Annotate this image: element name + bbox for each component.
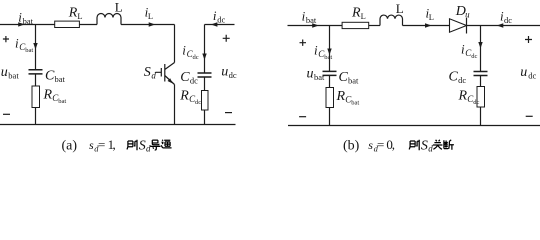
svg-text:L: L: [361, 11, 366, 21]
label i_L (a): [145, 5, 154, 22]
wire: between R_L and L (a): [79, 24, 97, 26]
label R_L (a): [68, 6, 83, 21]
caption (a) hanzi 导: [150, 140, 160, 150]
svg-text:d: d: [428, 144, 433, 154]
svg-text:dc: dc: [195, 99, 201, 106]
label L (b): [396, 1, 404, 16]
wire: circuit (a) top right dc segment: [205, 24, 235, 26]
plus terminal right (b): [525, 36, 532, 43]
svg-text:R: R: [43, 87, 53, 102]
wire: R_C_bat to bottom rail (b): [329, 108, 331, 126]
svg-text:S: S: [421, 139, 428, 154]
plus terminal left (b): [300, 40, 307, 46]
svg-text:L: L: [77, 11, 82, 21]
wire: switch emitter to bottom rail (a): [174, 85, 176, 125]
wire: circuit (b) bottom rail: [288, 125, 540, 127]
minus terminal right (a): [225, 112, 232, 114]
label R_L (b): [351, 5, 366, 20]
caption (b) hanzi 即: [409, 140, 419, 151]
svg-text:L: L: [148, 11, 153, 21]
label i_dc (b): [500, 9, 512, 26]
label u_bat (b): [307, 67, 326, 83]
svg-text:dc: dc: [504, 15, 512, 25]
svg-text:=: =: [98, 137, 105, 152]
current arrow i_bat (b): [312, 23, 319, 27]
label i_bat (a): [18, 9, 33, 26]
wire: R_C_dc to bottom rail (a): [204, 110, 206, 125]
label C_dc (b): [449, 70, 467, 86]
label i_L (b): [426, 6, 434, 23]
resistor R_L (a): [55, 21, 80, 27]
caption (b) hanzi 关: [433, 140, 443, 150]
capacitor C_dc (b): [474, 72, 488, 76]
svg-text:s: s: [368, 138, 373, 152]
resistor R_C_bat (b): [326, 88, 334, 108]
current arrow i_C_dc (b): [478, 42, 482, 49]
svg-text:bat: bat: [55, 74, 66, 84]
label C_dc (a): [180, 70, 198, 86]
transistor S_d (IGBT): [156, 63, 175, 85]
caption (a) hanzi 即: [127, 140, 137, 151]
label R_C_dc (b): [458, 89, 480, 107]
svg-text:S: S: [139, 139, 146, 154]
caption (a) text: [62, 137, 152, 153]
svg-text:S: S: [144, 65, 151, 80]
resistor R_C_dc (a): [202, 91, 209, 111]
svg-text:d: d: [146, 144, 151, 154]
capacitor C_bat (a): [29, 70, 43, 74]
wire: circuit (b) top rail left segment: [288, 25, 343, 27]
current arrow i_dc (b): [497, 23, 504, 27]
label C_bat (a): [45, 69, 66, 85]
label i_C_bat (a): [15, 35, 33, 54]
inductor L (a): [97, 14, 121, 25]
node: C_dc branch drop (b): [480, 26, 482, 72]
svg-text:dc: dc: [193, 54, 199, 61]
minus terminal left (b): [299, 116, 306, 118]
wire: C_dc to R_C_dc (a): [204, 77, 206, 90]
wire: between R_L and L (b): [369, 25, 380, 27]
wire: switch collector drop (a): [174, 25, 176, 63]
svg-text:C: C: [45, 69, 55, 84]
svg-text:u: u: [1, 65, 8, 80]
svg-text:bat: bat: [23, 16, 34, 26]
svg-text:dc: dc: [190, 75, 198, 85]
label R_C_bat (b): [336, 89, 360, 107]
svg-text:bat: bat: [348, 76, 359, 86]
resistor R_L (b): [342, 22, 369, 28]
caption (b) hanzi 断: [444, 140, 454, 150]
svg-text:,: ,: [392, 137, 395, 152]
svg-text:,: ,: [113, 137, 116, 152]
svg-text:d: d: [151, 71, 156, 81]
minus terminal right (b): [526, 115, 533, 117]
label u_dc (b): [520, 65, 536, 81]
node: C_dc branch drop (a): [204, 25, 206, 73]
wire: L to diode (b): [403, 25, 450, 27]
wire: L to switch corner (a): [121, 24, 175, 26]
current arrow i_L (a): [149, 22, 156, 26]
svg-text:bat: bat: [25, 47, 33, 54]
svg-text:bat: bat: [351, 100, 359, 107]
svg-text:L: L: [429, 12, 434, 22]
svg-text:dc: dc: [528, 70, 536, 80]
inductor L (b): [380, 15, 403, 25]
wire: C_dc to R_C_dc (b): [480, 76, 482, 87]
minus terminal left (a): [3, 113, 10, 115]
label L (a): [115, 0, 123, 15]
capacitor C_bat (b): [323, 71, 337, 75]
svg-text:u: u: [465, 10, 470, 20]
label i_bat (b): [302, 9, 317, 26]
current arrow i_C_bat (a): [33, 43, 37, 50]
label S_d: [144, 65, 157, 81]
diode D_u: [450, 18, 467, 34]
svg-text:R: R: [458, 89, 468, 104]
svg-text:dc: dc: [471, 53, 477, 60]
svg-text:R: R: [336, 89, 346, 104]
svg-text:bat: bat: [324, 54, 332, 61]
svg-text:R: R: [351, 5, 361, 20]
svg-text:dc: dc: [217, 15, 225, 25]
label i_C_dc (b): [461, 42, 477, 61]
svg-text:s: s: [89, 138, 94, 152]
svg-text:dc: dc: [229, 70, 237, 80]
wire: diode to right edge (b): [467, 25, 540, 27]
plus terminal right (a): [223, 35, 230, 42]
caption (b) text: [343, 137, 433, 153]
label u_bat (a): [1, 65, 20, 81]
svg-text:(a): (a): [62, 139, 78, 154]
node: battery branch junction (b): [329, 26, 331, 72]
capacitor C_dc (a): [198, 73, 212, 77]
wire: circuit (a) bottom rail: [0, 124, 236, 126]
svg-text:dc: dc: [473, 99, 479, 106]
label R_C_dc (a): [179, 88, 201, 106]
svg-text:u: u: [520, 65, 527, 80]
plus terminal left (a): [3, 36, 9, 42]
svg-text:u: u: [307, 67, 314, 82]
svg-text:R: R: [68, 6, 78, 21]
label u_dc (a): [221, 64, 237, 80]
svg-text:=: =: [377, 137, 384, 152]
label i_dc (a): [213, 8, 226, 25]
label i_C_bat (b): [314, 42, 332, 61]
svg-text:R: R: [179, 88, 189, 103]
resistor R_C_dc (b): [477, 87, 485, 108]
current arrow i_C_bat (b): [327, 49, 331, 56]
svg-text:bat: bat: [314, 72, 325, 82]
wire: C_bat to R_C_bat (a): [35, 74, 37, 86]
wire: R_C_dc to bottom rail (b): [480, 107, 482, 126]
wire: C_bat to R_C_bat (b): [329, 75, 331, 87]
node: battery branch junction (a): [35, 25, 37, 70]
label C_bat (b): [339, 70, 360, 86]
svg-text:L: L: [115, 0, 123, 15]
label i_C_dc (a): [182, 43, 198, 62]
svg-text:C: C: [339, 70, 349, 85]
wire: circuit (a) top rail left segment: [0, 24, 55, 26]
svg-text:C: C: [449, 70, 459, 85]
resistor R_C_bat (a): [32, 86, 40, 108]
current arrow i_bat (a): [18, 22, 25, 26]
svg-text:u: u: [221, 64, 228, 79]
wire: R_C_bat to bottom rail (a): [35, 108, 37, 125]
svg-text:bat: bat: [306, 15, 317, 25]
current arrow i_L (b): [425, 23, 432, 27]
svg-text:bat: bat: [58, 98, 66, 105]
svg-text:(b): (b): [343, 139, 360, 154]
current arrow i_C_dc (a): [202, 54, 206, 61]
svg-text:dc: dc: [458, 75, 466, 85]
svg-text:L: L: [396, 1, 404, 16]
current arrow i_dc (a): [211, 22, 218, 26]
svg-text:C: C: [180, 70, 190, 85]
caption (a) hanzi 通: [161, 140, 171, 148]
svg-text:bat: bat: [8, 71, 19, 81]
label R_C_bat (a): [43, 87, 67, 105]
label D_u: [455, 4, 470, 20]
